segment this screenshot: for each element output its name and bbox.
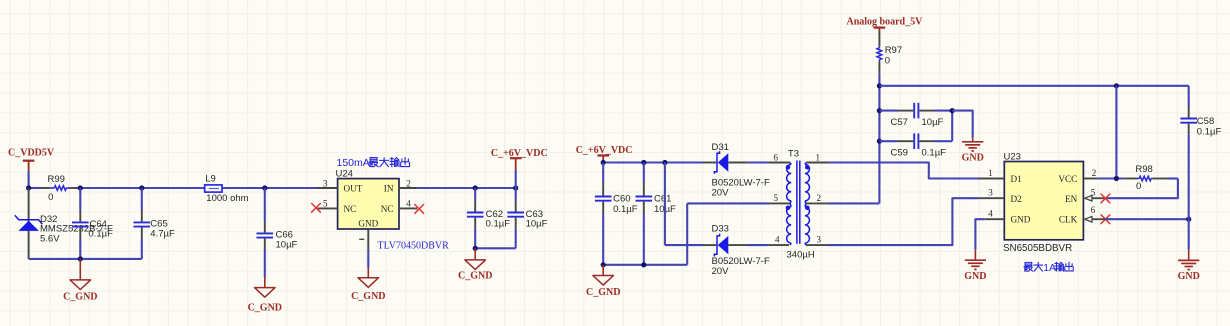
svg-text:3: 3 [817,235,822,245]
power port Analog board_5V [847,17,924,32]
junction at C62 bottom [473,246,478,251]
capacitor C59 [879,133,952,158]
ground GND under U23 [964,250,986,282]
power port C_VDD5V [8,148,55,188]
svg-text:0.1µF: 0.1µF [922,148,947,159]
svg-text:CLK: CLK [1059,215,1078,225]
ground C_GND center [586,265,620,298]
svg-text:5: 5 [774,193,779,203]
svg-text:10µF: 10µF [276,239,298,250]
svg-text:5: 5 [323,199,328,209]
U24 pin 2 IN [399,178,417,188]
svg-text:OUT: OUT [344,184,363,194]
wire CLK to C58 net [1092,218,1189,220]
inductor L9 [205,174,249,205]
wire U23 GND pin down [975,219,984,250]
svg-text:GND: GND [1178,271,1200,282]
svg-text:Analog board_5V: Analog board_5V [847,17,924,28]
svg-text:R97: R97 [885,45,902,56]
transformer driver U23 SN6505BDBVR body [1004,162,1083,240]
wire net C_VDD5V main row [29,187,318,189]
svg-text:C_VDD5V: C_VDD5V [8,148,55,159]
T3 pin 5 [769,193,790,203]
svg-text:2: 2 [406,178,411,188]
junction at C66 top [262,185,267,190]
svg-text:150mA: 150mA [337,157,370,169]
wire D33 cathode to +6V rail [665,163,703,246]
svg-text:10µF: 10µF [922,117,944,128]
junction at R99 left [26,185,31,190]
svg-text:C59: C59 [891,148,908,159]
svg-text:2: 2 [817,193,822,203]
svg-text:1000 ohm: 1000 ohm [206,193,248,204]
U24 pin 1 GND [359,229,368,250]
capacitor C64 [72,188,113,259]
power port C_+6V_VDC center [576,145,633,163]
svg-text:C_GND: C_GND [63,291,97,302]
wire C59 right to C57 junction [951,111,953,142]
svg-text:GND: GND [962,153,984,164]
wire T3 pin2 to 5V vertical [828,141,879,203]
ground C_GND left [63,259,97,302]
svg-text:10µF: 10µF [526,219,548,230]
svg-text:0.1µF: 0.1µF [88,229,113,240]
no-ERC marker U24 pin 4 [415,205,424,214]
U24 pin 5 NC [318,199,338,209]
capacitor C63 [507,188,547,248]
svg-text:IN: IN [384,184,394,194]
wire VCC vertical [1115,86,1117,179]
no-ERC marker U24 pin 5 [312,203,321,212]
part number SN6505BDBVR [1003,243,1072,254]
wire C58 bottom to ground [1188,219,1190,250]
svg-text:TLV70450DBVR: TLV70450DBVR [378,241,450,252]
capacitor C66 [257,188,298,278]
svg-text:GND: GND [964,271,986,282]
no-ERC marker U23 pin 6 [1101,215,1110,224]
wire bottom rail center [603,264,687,266]
svg-text:4.7µF: 4.7µF [150,228,175,239]
svg-text:6: 6 [1091,205,1096,215]
svg-text:D33: D33 [712,224,729,235]
junction 5V top rail [877,83,882,88]
svg-text:C_+6V_VDC: C_+6V_VDC [576,145,633,156]
svg-text:1: 1 [988,168,993,178]
ground C_GND under C62 [458,248,492,281]
wire bottom rail left [29,258,142,260]
svg-text:6: 6 [774,152,779,162]
annotation 150mA max output [337,157,410,169]
capacitor C62 [467,188,510,248]
junction CLK node [1186,217,1191,222]
capacitor C57 [879,103,952,128]
svg-text:3: 3 [323,178,328,188]
svg-text:C_GND: C_GND [248,303,282,314]
svg-text:GND: GND [1011,215,1031,225]
capacitor C61 [636,163,677,265]
svg-text:C_GND: C_GND [586,287,620,298]
T3 pin 1 [806,152,828,162]
ground C_GND under U24 [351,250,385,303]
U23 designator [1004,151,1021,162]
svg-text:SN6505BDBVR: SN6505BDBVR [1003,243,1072,254]
ground GND near C57 [962,138,984,164]
wire C62-C63 bottom [475,247,516,249]
resistor R99 [40,174,77,203]
svg-text:0: 0 [1136,181,1141,192]
op-amp/regulator U24 designator [336,169,353,180]
resistor R97 [877,31,902,141]
svg-text:20V: 20V [712,266,730,277]
junction at C64 top [78,185,83,190]
junction C57 branch [877,108,882,113]
svg-text:1A: 1A [1043,262,1056,274]
junction at C65 top [139,185,144,190]
U24 pin 4 NC [399,199,417,209]
junction C60 bottom [601,262,606,267]
annotation max 1A output [1024,262,1073,274]
wire +6V rail [603,161,703,163]
U23 pin 5 EN with input arrow [1085,187,1096,201]
wire U24 IN net [417,187,515,189]
svg-text:5: 5 [1091,187,1096,197]
svg-text:D1: D1 [1011,174,1023,184]
T3 pin 2 [806,193,828,203]
svg-text:5.6V: 5.6V [40,233,60,244]
part number TLV70450DBVR [378,241,450,252]
svg-text:EN: EN [1065,194,1078,204]
U23 pin 6 CLK with input arrow [1085,205,1096,222]
U23 pin 4 GND [984,209,1004,220]
svg-text:R98: R98 [1135,164,1152,175]
wire T3 pin5 center tap to ground rail [687,203,769,264]
svg-text:4: 4 [988,209,993,219]
power port C_+6V_VDC right of U24 [491,148,548,188]
junction at bottom rail [78,256,83,261]
wire T3 pin3 to U23 D2 [828,198,979,245]
svg-text:2: 2 [1092,168,1097,178]
junction C57 right [950,108,955,113]
U24 pin 3 OUT [318,178,338,188]
ground GND bottom right [1178,250,1200,282]
svg-text:340µH: 340µH [787,249,815,260]
wire T3 pin1 to U23 D1 [828,163,979,179]
ground C_GND under C66 [248,278,282,314]
wire R98 to EN [1092,179,1178,199]
svg-text:D31: D31 [712,142,729,153]
svg-text:1: 1 [816,152,821,162]
schottky diode D33 [703,224,770,277]
svg-text:0.1µF: 0.1µF [613,204,638,215]
junction C59 branch [877,139,882,144]
T3 pin 6 [768,152,790,162]
junction VCC node [1114,176,1119,181]
T3 pin 4 [768,235,789,245]
schottky diode D31 [703,142,770,198]
svg-text:20V: 20V [712,187,730,198]
junction at C63 top [513,185,518,190]
svg-text:C57: C57 [891,117,908,128]
junction C61 bottom [641,262,646,267]
svg-text:0.1µF: 0.1µF [1197,127,1222,138]
wire 5V top rail [879,85,1188,87]
transformer T3 [786,148,815,260]
junction at D33 branch [662,160,667,165]
junction at C60 top [601,160,606,165]
resistor R98 [1124,164,1178,192]
junction at C62 top [473,185,478,190]
svg-text:4: 4 [775,235,780,245]
svg-text:GND: GND [358,218,378,228]
svg-text:L9: L9 [205,174,216,185]
svg-text:0.1µF: 0.1µF [486,219,511,230]
svg-text:NC: NC [381,204,394,214]
U23 pin 1 D1 [979,168,1005,179]
svg-text:VCC: VCC [1058,174,1077,184]
svg-text:NC: NC [344,204,357,214]
U23 pin 3 D2 [979,188,1005,199]
svg-text:C_GND: C_GND [458,271,492,282]
svg-text:3: 3 [988,188,993,198]
capacitor C65 [134,188,175,259]
svg-text:D2: D2 [1011,194,1023,204]
svg-text:0: 0 [885,56,890,67]
wire to GND near C57 [952,111,973,138]
svg-text:T3: T3 [788,148,799,159]
no-ERC marker U23 pin 5 [1101,194,1110,203]
svg-text:4: 4 [406,199,411,209]
U23 pin 2 VCC [1083,168,1097,179]
svg-text:0: 0 [48,192,53,203]
wire VCC to R98 [1097,177,1124,179]
capacitor C58 [1180,86,1221,219]
junction at C61 top [641,160,646,165]
svg-text:C58: C58 [1197,116,1214,127]
regulator U24 TLV70450DBVR body [338,179,399,229]
capacitor C60 [595,163,638,265]
svg-text:C_GND: C_GND [351,291,385,302]
junction VCC branch [1114,83,1119,88]
T3 pin 3 [806,235,828,245]
zener diode D32 [15,188,113,259]
svg-text:R99: R99 [48,174,65,185]
